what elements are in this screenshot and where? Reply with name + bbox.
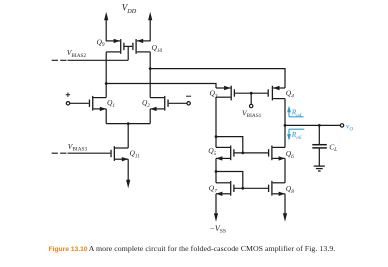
svg-text:Q7: Q7: [209, 184, 217, 195]
svg-text:VBIAS3: VBIAS3: [68, 142, 88, 153]
power rail VDD arrow left: [104, 12, 108, 42]
wire Q9 drain down to Q1 drain: [105, 52, 107, 98]
transistor Q6 (NMOS): [268, 146, 285, 161]
wire Q10 drain down to Q2 drain: [149, 52, 151, 98]
svg-text:Q9: Q9: [97, 37, 105, 48]
wire Q3 drain down to mirror: [215, 97, 217, 147]
transistor Q4 (PMOS): [268, 86, 285, 101]
wire Q11 source to negative supply arrow: [126, 159, 130, 188]
node mirror gate tap dot: [215, 135, 218, 138]
node gate bias junction dot: [250, 92, 253, 95]
caption: [49, 244, 388, 253]
transistor Q2 (NMOS): [150, 96, 169, 111]
transistor Q5 (NMOS): [216, 146, 235, 161]
wire tail line: [106, 123, 150, 125]
wire Q6 source to Q8 drain: [284, 158, 286, 182]
transistor Q3 (PMOS): [216, 86, 235, 101]
svg-text:Q10: Q10: [152, 43, 163, 54]
svg-text:VDD: VDD: [122, 3, 137, 15]
annotation Ro6 arrow: [287, 129, 304, 141]
node folding node B dot: [149, 67, 152, 70]
svg-text:Q4: Q4: [286, 89, 294, 100]
wire mirror gate tap upper: [216, 137, 243, 153]
svg-text:Ro6: Ro6: [291, 130, 302, 141]
wire output line: [285, 124, 340, 126]
wire gate drop to VBIAS2 line: [127, 46, 129, 60]
transistor Q9 (PMOS): [106, 39, 124, 54]
node gate line 1 junction dot: [241, 152, 244, 155]
wire Q2 gate to minus terminal: [169, 102, 187, 104]
terminal vO: [340, 124, 343, 127]
wire folding node B to Q4 source: [150, 69, 285, 88]
wire tail to Q11 drain: [127, 124, 129, 148]
svg-text:Q5: Q5: [208, 146, 216, 157]
node CL branch dot: [318, 124, 321, 127]
node tail junction dot: [127, 122, 130, 125]
input terminal minus: [186, 96, 191, 105]
wire VBIAS3 solid segment: [68, 152, 111, 154]
wire folding node A to Q3 source: [106, 84, 216, 89]
transistor Q10 (PMOS): [132, 39, 150, 54]
wire Q2 source down: [149, 109, 151, 124]
wire VBIAS3 dashed segment: [52, 152, 68, 154]
wire Q1 source down: [105, 109, 107, 124]
svg-text:Q3: Q3: [210, 89, 218, 100]
svg-text:−VSS: −VSS: [210, 224, 227, 235]
svg-text:vO: vO: [346, 122, 353, 133]
svg-text:CL: CL: [329, 142, 337, 153]
svg-text:VBIAS1: VBIAS1: [242, 108, 262, 119]
capacitor CL: [312, 125, 327, 165]
transistor Q11 (NMOS): [110, 146, 128, 161]
wire plus terminal to Q1 gate: [70, 102, 89, 104]
svg-text:Q8: Q8: [286, 184, 294, 195]
wire Q4 drain down to output: [284, 99, 286, 126]
wire mirror gate tap lower: [216, 172, 243, 189]
wire Q3-Q4 common gate: [235, 92, 268, 94]
wire Q8 source to negative supply arrow: [283, 194, 287, 222]
transistor Q8 (NMOS): [268, 181, 285, 196]
wire Q6 drain up to output: [284, 125, 286, 147]
transistor Q7 (NMOS): [216, 181, 235, 196]
wire VBIAS2 solid segment: [68, 59, 129, 61]
svg-text:Q11: Q11: [130, 149, 141, 160]
transistor Q1 (NMOS): [89, 96, 106, 111]
wire Q7 source to negative supply arrow: [214, 194, 218, 222]
svg-text:Q2: Q2: [142, 98, 150, 109]
node output junction dot: [284, 124, 287, 127]
node gate line 2 junction dot: [241, 187, 244, 190]
input terminal plus: [66, 93, 70, 106]
ground: [314, 166, 325, 171]
wire Q7-Q8 common gate: [234, 187, 268, 189]
node folding node A dot: [105, 82, 108, 85]
annotation Ro4 arrow: [287, 106, 303, 117]
svg-text:VBIAS2: VBIAS2: [67, 48, 87, 59]
wire Q5 source to Q7 drain: [215, 158, 217, 182]
power rail VDD arrow right: [148, 12, 152, 42]
wire VBIAS2 dashed segment: [52, 59, 68, 61]
svg-text:Q6: Q6: [286, 149, 294, 160]
wire Q5-Q6 common gate: [234, 152, 268, 154]
node mirror gate tap 2 dot: [215, 170, 218, 173]
svg-text:Q1: Q1: [107, 98, 115, 109]
wire Q9-Q10 common gate: [125, 45, 133, 47]
terminal VBIAS1: [250, 93, 253, 108]
